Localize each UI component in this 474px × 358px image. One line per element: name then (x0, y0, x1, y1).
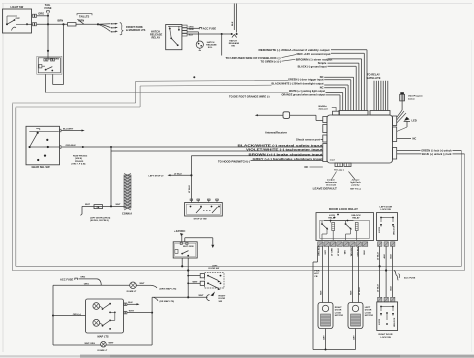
hatch release relay K2 (150, 25, 182, 50)
map lamp 2 (93, 319, 100, 326)
jumper 1 label (313, 179, 337, 190)
wire: ground input (298, 65, 357, 111)
wire relay BLK terminal to hatch switch (187, 33, 232, 35)
wire down from hatch node to fuseblock label (221, 34, 223, 56)
svg-text:MOTOR: MOTOR (335, 315, 344, 317)
module left input: tachometer (111, 148, 323, 152)
left door switch SW5 (200, 265, 224, 290)
svg-text:STOP LT SW: STOP LT SW (194, 219, 208, 221)
right door switch SW6 connector (187, 292, 226, 303)
module bottom jumper connectors (334, 163, 351, 171)
wire: Simple row (318, 61, 359, 110)
parking light relay K1 (added) (37, 24, 62, 74)
svg-text:PWR: PWR (314, 271, 320, 273)
svg-text:TAN: TAN (319, 290, 322, 295)
dome relay pin wires (181, 258, 189, 297)
svg-text:BLK: BLK (391, 286, 393, 291)
svg-text:LOCK: LOCK (335, 312, 342, 314)
wire: door trigger input (288, 78, 351, 111)
left stop light branch (149, 173, 192, 177)
svg-text:VIOLET/WHITE (-) tachometer in: VIOLET/WHITE (-) tachometer input (246, 148, 323, 152)
svg-text:data port: data port (319, 107, 329, 110)
svg-text:RED +12V constant input: RED +12V constant input (297, 52, 331, 56)
wire into CONN A with inline connector (81, 204, 125, 222)
hatch release solenoid L1 (187, 32, 217, 51)
dome relay K3 (173, 242, 197, 258)
TAILLTS branch (77, 14, 92, 25)
front park fork: 3 BRN wires with arrows (98, 23, 146, 35)
svg-text:ORG: ORG (80, 277, 85, 279)
valet/program button S1 (397, 92, 423, 117)
wire down from neutral line to CONN A (110, 147, 112, 206)
relay output wire WHT (parking light output run) (46, 74, 289, 92)
power accessory circuit breaker feed (313, 246, 356, 349)
svg-text:LT BLU: LT BLU (174, 173, 182, 175)
svg-text:MAP LTS: MAP LTS (98, 335, 109, 339)
svg-text:WHT: WHT (129, 311, 135, 313)
scan speck (193, 76, 195, 78)
svg-text:LT BLU: LT BLU (338, 248, 340, 256)
svg-text:UNLOCK: UNLOCK (394, 225, 396, 235)
svg-text:LT GRN: LT GRN (332, 248, 334, 256)
svg-text:button: button (408, 97, 415, 100)
WHT output to riser (124, 311, 153, 314)
svg-text:Antenna/Receiver: Antenna/Receiver (265, 130, 287, 134)
right motor wires (319, 246, 328, 302)
svg-text:LEFT: LEFT (365, 307, 371, 309)
GREEN lock output wire (397, 148, 462, 152)
right door lock switch connector row (378, 297, 395, 302)
svg-text:RELAY: RELAY (152, 36, 161, 40)
main taillight feed wire BRN (37, 19, 68, 26)
svg-text:GRN: GRN (189, 29, 194, 31)
svg-text:DOOR SW: DOOR SW (209, 268, 221, 270)
svg-text:BLACK (-) ground input: BLACK (-) ground input (298, 65, 327, 69)
svg-text:GEAR SEL SW: GEAR SEL SW (32, 165, 51, 169)
svg-text:Shock sensor port: Shock sensor port (296, 137, 320, 141)
svg-text:TO DIE FOOT ORANGE WIRE (-): TO DIE FOOT ORANGE WIRE (-) (229, 95, 270, 99)
svg-text:ACC FUSE: ACC FUSE (404, 277, 416, 280)
svg-text:Blk/Wht: Blk/Wht (319, 105, 327, 108)
wires module to valet button fan (397, 111, 406, 123)
svg-text:WHT-ORG: WHT-ORG (85, 343, 96, 345)
BLK output with arrow (124, 302, 140, 305)
svg-text:ORANGE ground when armed outpu: ORANGE ground when armed output (282, 92, 326, 96)
svg-text:mod: mod (330, 160, 335, 162)
svg-text:GRY: GRY (325, 249, 327, 254)
svg-text:GRY: GRY (353, 335, 355, 340)
wire: domelight output (272, 82, 349, 111)
svg-text:SATELLITE: SATELLITE (367, 76, 381, 80)
svg-text:CB: CB (314, 276, 318, 278)
svg-text:BLU-WHT: BLU-WHT (63, 129, 74, 131)
svg-text:tachometer: tachometer (325, 181, 337, 184)
svg-text:BROWN (+/-) brake shutdown inp: BROWN (+/-) brake shutdown input (249, 152, 323, 156)
svg-text:LT BLU: LT BLU (189, 185, 191, 193)
hatch release switch SW2 (229, 33, 240, 47)
svg-text:ORG-BLK: ORG-BLK (66, 145, 77, 147)
svg-text:DOOR: DOOR (335, 310, 342, 312)
svg-text:CONN A: CONN A (122, 211, 132, 215)
LED D1 (397, 117, 417, 132)
stop light switch SW4 (185, 199, 223, 221)
svg-text:LT BLU: LT BLU (359, 287, 361, 295)
map lights box (86, 299, 124, 339)
wire colour labels below relay row (319, 245, 367, 256)
module main body (327, 115, 393, 163)
svg-text:RIGHT: RIGHT (335, 307, 342, 309)
svg-text:+12VDC: +12VDC (174, 229, 186, 233)
tail fuse F1 (45, 3, 52, 24)
svg-text:LEFT STOP LT: LEFT STOP LT (149, 175, 165, 177)
dome feed rail left (52, 285, 130, 345)
svg-text:BLACK/WHITE (-) 200mA domeligh: BLACK/WHITE (-) 200mA domelight output (272, 82, 324, 86)
svg-text:TO HOOD PINSWITCH (-): TO HOOD PINSWITCH (-) (218, 160, 250, 164)
svg-text:NC: NC (305, 165, 309, 169)
svg-text:WHT: WHT (193, 281, 199, 283)
dome light lamp DL1 (127, 282, 151, 293)
svg-text:TAILLTS: TAILLTS (79, 15, 90, 19)
NC stub right side (397, 137, 417, 141)
right door lock motor M1 (318, 303, 343, 351)
gear selector switch SW3 (26, 126, 61, 169)
svg-text:BLK: BLK (189, 35, 194, 37)
long loop wire A: dome run riser to left bus, bottom run, right riser to BLUE (12, 80, 464, 270)
data port bump (319, 105, 340, 115)
svg-text:BLK: BLK (128, 302, 133, 304)
svg-text:LT BLU: LT BLU (377, 284, 379, 292)
bottom dome lamp DL2 (53, 341, 152, 351)
ACC fuse tap on bus (394, 271, 416, 281)
relay output wire to domelight run (53, 24, 64, 84)
svg-text:BRN: BRN (111, 24, 116, 26)
svg-text:ACC: ACC (314, 272, 319, 275)
map light switch contacts (100, 303, 116, 330)
fork to DR/S map lights (151, 285, 177, 290)
svg-text:LED: LED (412, 118, 417, 122)
module left NC stub (305, 165, 323, 169)
ORG(+) input to map box (53, 314, 86, 316)
svg-text:WHT: WHT (85, 204, 91, 206)
svg-text:RIGHT DOOR: RIGHT DOOR (379, 334, 393, 336)
wire: switch to terminals (27, 23, 33, 25)
svg-text:TAN: TAN (349, 290, 352, 295)
lock relay internals (320, 220, 370, 241)
svg-text:GREEN (-) lock (+) unlock: GREEN (-) lock (+) unlock (421, 148, 452, 152)
module top connector A (339, 111, 368, 116)
svg-text:TO SIREN (+) (-): TO SIREN (+) (-) (261, 59, 282, 63)
hatch relay terminal blocks (182, 25, 194, 36)
map lamp 1 (93, 303, 100, 310)
map lights feed line (151, 297, 188, 345)
jumper 2 label (350, 179, 361, 190)
svg-text:WHT: WHT (140, 283, 146, 285)
bottom scan shadow band (0, 355, 474, 358)
svg-text:LT BLU: LT BLU (377, 252, 379, 260)
svg-text:LOCK SW: LOCK SW (381, 209, 392, 211)
svg-text:WHT: WHT (109, 342, 115, 344)
left door lock motor M2 (348, 303, 373, 350)
wire ORG from terminal to tail fuse node (37, 12, 50, 17)
inline fuse in taillight wire (68, 23, 77, 26)
svg-text:H1 Lo(-) x: H1 Lo(-) x (334, 169, 345, 171)
svg-text:LOCK: LOCK (379, 318, 381, 325)
antenna/receiver AN1 (255, 112, 323, 135)
pin note text (72, 156, 89, 166)
module left connector bumps (323, 117, 327, 162)
wire: parking light output (289, 89, 343, 111)
svg-text:GREEN (-) door trigger input: GREEN (-) door trigger input (288, 78, 324, 82)
svg-text:(VIN 7, F & B): (VIN 7, F & B) (72, 163, 86, 165)
light switch SW1 box (3, 5, 32, 33)
wire to fork (76, 19, 99, 26)
left door lock switch connector row (378, 242, 395, 247)
svg-text:(DR MAP LTS): (DR MAP LTS) (160, 300, 175, 303)
svg-text:WHT GRN: WHT GRN (49, 59, 60, 61)
svg-text:WHITE (+/-) parking light outp: WHITE (+/-) parking light output (289, 89, 325, 93)
svg-text:RED/WHITE (-) 200mA channel 2: RED/WHITE (-) 200mA channel 2 validity o… (259, 48, 330, 52)
right door lock switch SW8 (377, 302, 398, 339)
svg-text:(DR/S MAP LTS): (DR/S MAP LTS) (160, 287, 177, 290)
svg-text:BLK: BLK (391, 254, 393, 259)
svg-text:NC: NC (413, 137, 417, 141)
module left input: brake shutdown (191, 152, 322, 156)
svg-text:DOOR LOCK RELAY: DOOR LOCK RELAY (329, 207, 358, 211)
left motor wires (349, 246, 361, 302)
svg-text:SET TO (-): SET TO (-) (350, 188, 361, 190)
svg-text:FUSE: FUSE (45, 6, 52, 10)
svg-text:ORG (+): ORG (+) (73, 314, 82, 316)
svg-text:WHT GRN: WHT GRN (183, 246, 194, 248)
svg-text:LEAVE DEFAULT: LEAVE DEFAULT (313, 186, 337, 190)
CONN A hatched connector (122, 173, 132, 215)
svg-text:MOTOR: MOTOR (365, 315, 374, 317)
module left input: handbrake shutdown (218, 157, 323, 164)
svg-text:GREY (+/-) handbrake shutdown: GREY (+/-) handbrake shutdown input (253, 157, 323, 161)
svg-text:light flash: light flash (350, 181, 361, 184)
svg-text:TAN: TAN (344, 250, 347, 255)
shock sensor port stub (296, 137, 323, 141)
module right connector bumps (393, 116, 397, 159)
wire: NC row 2 (320, 86, 346, 111)
svg-text:ORG: ORG (38, 12, 44, 16)
svg-text:DOME LT: DOME LT (98, 350, 108, 352)
to relay satellite wires (367, 73, 388, 111)
svg-text:(S8 DIG, S5 PIN 8): (S8 DIG, S5 PIN 8) (90, 220, 109, 222)
ACC fuse feed (60, 277, 101, 286)
svg-text:LOCK: LOCK (365, 312, 372, 314)
wire: NC row 1 (320, 75, 354, 110)
light switch internal contacts (6, 16, 28, 31)
svg-text:LOCK: LOCK (379, 226, 381, 233)
right door lock switch wires (377, 246, 392, 297)
relay connector row (hatched) (318, 242, 368, 247)
wire: siren output (261, 57, 362, 110)
svg-text:BRN: BRN (58, 19, 64, 23)
svg-text:BLK: BLK (364, 250, 366, 255)
svg-text:WHT: WHT (199, 295, 205, 297)
left door lock switch SW7 (377, 207, 398, 241)
svg-text:DOME LT: DOME LT (127, 291, 137, 293)
long loop wire B: white run riser to left bus, bottom run, right riser to GREEN (16, 85, 462, 266)
svg-text:BLUE (+) unlock (-) lock: BLUE (+) unlock (-) lock (422, 152, 452, 156)
svg-text:WHT: WHT (116, 204, 122, 206)
svg-text:LOCK SW: LOCK SW (381, 337, 392, 339)
svg-text:polarity: polarity (352, 184, 361, 187)
svg-text:UNLOCK: UNLOCK (394, 317, 396, 327)
svg-text:2A: 2A (97, 206, 100, 209)
svg-text:GRY: GRY (323, 335, 325, 340)
svg-text:LIGHT SW: LIGHT SW (11, 5, 24, 9)
module left input: neutral safety (gear selector wire) (61, 144, 323, 148)
hatch release switch SW2 feed wires from top (232, 4, 236, 33)
svg-text:BLK: BLK (232, 21, 234, 26)
svg-text:BRN: BRN (111, 31, 116, 33)
module top connector B (370, 111, 390, 116)
door lock relay assembly K4 (316, 207, 374, 240)
wire: ground when armed output (229, 92, 340, 110)
ACC FUSE feed to hatch relay (187, 26, 216, 30)
connector terminals at light switch (32, 14, 37, 26)
svg-text:ACC FUSE: ACC FUSE (203, 26, 217, 30)
svg-text:OFF: OFF (16, 18, 21, 20)
brake wire drop to stop light switch (189, 156, 193, 203)
wire: channel 2 validity output (259, 48, 368, 110)
+12VDC supply tap (174, 229, 186, 242)
wire: +12V constant input (226, 52, 365, 111)
svg-text:LEFT DOOR: LEFT DOOR (380, 207, 393, 209)
dome relay arm wire to door sw arrow (185, 238, 215, 248)
svg-text:TO UNFUSED SIDE OF FUSEBLOCK (: TO UNFUSED SIDE OF FUSEBLOCK (-) (226, 56, 281, 60)
BLU-WHT wire with arrow (61, 129, 85, 132)
wires to left door switch (187, 275, 200, 284)
svg-text:BROWN (-) siren output: BROWN (-) siren output (296, 57, 333, 61)
svg-text:Valet/Program: Valet/Program (408, 95, 423, 98)
svg-text:ACC FUSE: ACC FUSE (60, 277, 74, 281)
unlock relay internals (334, 214, 358, 241)
svg-text:DOOR: DOOR (365, 310, 372, 312)
jumper leader lines (332, 172, 356, 180)
svg-text:ALK: ALK (383, 254, 386, 259)
svg-text:BRN: BRN (111, 27, 116, 29)
BLUE unlock output wire (397, 152, 465, 156)
svg-text:& MARKER LTS: & MARKER LTS (126, 28, 146, 32)
svg-text:ORG-BLK: ORG-BLK (319, 245, 321, 256)
svg-text:SOL: SOL (208, 47, 213, 49)
svg-text:RELAY: RELAY (352, 216, 360, 219)
